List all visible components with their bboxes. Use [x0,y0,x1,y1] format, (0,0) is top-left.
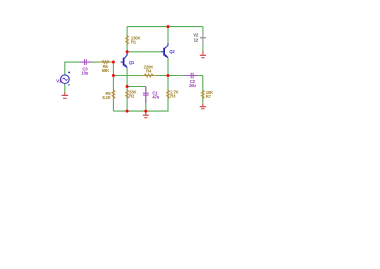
capacitor C2 10u [186,73,198,79]
wire C1 column [145,87,147,112]
wire V1 top stem [64,62,66,75]
wire R1 column / Q1 collector [126,27,128,55]
svg-text:47u: 47u [152,94,159,99]
node Q1 emitter junction [126,85,129,88]
svg-text:R1: R1 [131,39,137,44]
wire R7 column [202,76,204,104]
node Q2 emitter junction [167,74,170,77]
ground below V2 [200,51,206,58]
ground below C1 on bottom rail [143,111,149,118]
resistor R6 68K [98,61,111,64]
source V1 sine [61,75,70,84]
wire V2 bottom stem [202,45,204,51]
wire Q1 emitter node to C1 [127,86,146,88]
wire V1 bottom stem [64,84,66,92]
svg-text:Q1: Q1 [129,60,135,65]
ground below R7 [200,103,206,109]
resistor R4 220K [141,74,157,77]
ground below V1 [62,92,69,98]
resistor R7 10K [201,90,204,99]
wire V2 top stem [202,27,204,32]
node Q1 collector junction [126,50,129,53]
wire Q2 collector column [167,27,169,45]
svg-text:R4: R4 [146,68,152,73]
capacitor C3 10u [80,59,92,65]
svg-text:8.2K: 8.2K [102,95,111,100]
wire Q2 emitter column [167,58,169,76]
svg-text:10u: 10u [189,83,196,88]
wire input row V1 to Q1 base [65,61,114,63]
node top rail junction [167,25,170,28]
resistor R1 130K [126,35,129,44]
resistor R5 8.2K [112,90,115,99]
svg-text:Q2: Q2 [169,49,175,54]
svg-text:10u: 10u [81,70,88,75]
node bottom rail C1 junction [144,110,147,113]
svg-text:68K: 68K [102,68,110,73]
wire Q1 emitter column through R2 [126,67,128,111]
resistor R2 33K [126,90,129,99]
svg-text:V1: V1 [56,79,62,84]
node bottom rail R2 junction [126,110,129,113]
svg-text:R3: R3 [170,94,176,99]
capacitor C1 47u [143,87,149,103]
node Q1 base junction [112,61,115,64]
wire output row through C2 [168,75,203,77]
transistor Q1 [121,53,128,67]
source V2 battery 12V [200,32,206,46]
wire R3 column [167,76,169,112]
svg-text:R7: R7 [206,94,212,99]
node R4 left junction [112,74,115,77]
wire R4 feedback row [113,75,168,77]
transistor Q2 [161,43,168,58]
wire left column base node down through R5 to bottom rail [112,62,114,111]
resistor R3 2.7K [167,90,170,99]
wire top rail [127,26,203,28]
svg-text:R2: R2 [129,94,135,99]
wire Q1 collector to Q2 base [127,51,161,53]
wire bottom rail [113,110,168,112]
